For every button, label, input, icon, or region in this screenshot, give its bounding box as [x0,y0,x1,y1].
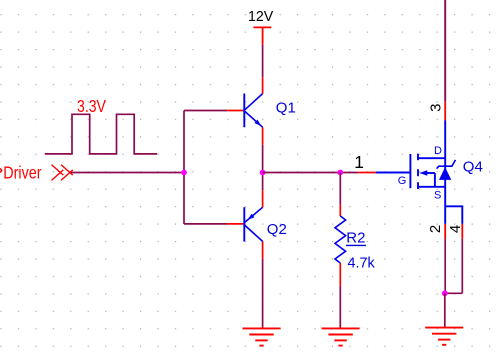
ground (R2) [322,328,360,345]
Q4 drain stub [418,157,445,159]
Q2 base pin [227,223,244,225]
junction A [181,170,187,176]
svg-text:3.3V: 3.3V [77,96,106,116]
port Driver chevrons [52,165,73,181]
Q2 collector pin [262,241,264,259]
svg-text:R2: R2 [346,229,365,246]
Q2 base bar [243,207,245,241]
R2 pin 2 [339,263,341,286]
wire drain from top edge [444,0,446,102]
R2 zigzag [335,216,346,263]
wire to Q1 base [184,110,227,112]
svg-text:1: 1 [354,152,364,172]
svg-text:Driver: Driver [3,162,41,182]
Q2 emitter arrow [248,214,255,220]
Q4 source stub [418,186,445,188]
wire source to ground [444,293,446,327]
Q4 body to source [434,173,436,187]
junction source [442,290,448,296]
wire source pin4 down [461,238,463,293]
Q1 emitter pin [262,127,264,145]
Q1 base pin [227,110,244,112]
Q4 gate bar [409,154,411,188]
resistor R2 [335,205,346,286]
transistor Q2 (PNP) [227,190,262,259]
Q2 collector lead [244,225,262,242]
R2 pin 1 [339,205,341,216]
wire Driver to junction A [71,172,184,174]
wire source join [445,292,463,294]
annotation pulse waveform [45,114,157,154]
Q4 gate pin [358,172,376,174]
Q2 emitter lead [244,207,262,222]
svg-text:D: D [434,145,442,157]
Q4 drain pin (3) [444,102,446,121]
svg-text:12V: 12V [248,8,273,25]
label R2 underline [346,244,366,246]
Q4 drain-source vertical [444,121,446,224]
Q4 gate lead [376,172,411,174]
ground (Q2) [243,328,281,345]
junction R2 top [337,170,343,176]
wire output node to R2 junction [263,172,341,174]
svg-text:2: 2 [427,225,444,233]
Q1 collector lead [244,94,262,111]
Q4 second source branch [445,206,462,224]
junction output node [260,170,266,176]
svg-text:3: 3 [428,104,445,112]
wire Q1 emitter to output junction [262,145,264,190]
wire junction A up to Q1 base row [183,111,185,173]
svg-text:Q4: Q4 [463,158,483,175]
svg-text:4: 4 [447,225,464,233]
Q4 body diode triangle [439,167,451,180]
Q4 channel segment top [417,154,419,161]
clipped port tip at left edge [0,168,2,172]
Q1 emitter lead [244,111,262,127]
ground (Q4 source) [425,328,463,345]
wire source pin2 down [444,238,446,293]
svg-text:4.7k: 4.7k [348,255,376,272]
svg-text:Q2: Q2 [267,221,287,238]
transistor Q1 (NPN) [227,77,262,144]
Q1 collector pin [262,77,264,93]
mosfet Q4 [358,102,462,239]
wire Q2 collector to ground [262,259,264,329]
svg-text:Q1: Q1 [276,100,296,117]
Q4 source pin (2) [444,224,446,239]
wire R2 to ground [339,286,341,329]
wire to Q2 base [184,223,227,225]
power port 12V [253,27,271,45]
Q4 channel segment bottom [417,182,419,189]
Q4 body diode cathode bar [437,160,456,169]
Q1 base bar [243,94,245,128]
wire R2 junction down [339,173,341,205]
Q4 body arrow [419,170,427,175]
Q2 emitter pin [262,190,264,207]
wire junction A down to Q2 base row [183,173,185,224]
wire R2 junction to Q4 gate [340,172,358,174]
Q1 emitter arrow [254,120,261,126]
svg-text:G: G [398,175,407,187]
wire 12V to Q1 collector [262,45,264,78]
Q4 channel segment middle [417,169,419,176]
Q4 source pin (4) [461,224,463,239]
svg-text:S: S [434,190,441,202]
Q4 body stub [427,172,435,174]
